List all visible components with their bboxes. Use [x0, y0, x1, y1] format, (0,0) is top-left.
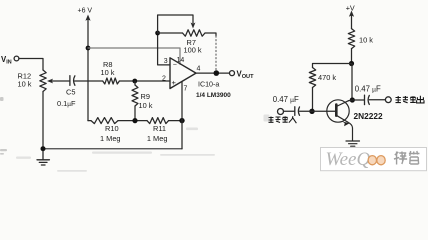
svg-text:IC10-a: IC10-a [198, 80, 219, 88]
wire R12 bottom to ground rail [42, 92, 44, 149]
node R11/pin7 junction [179, 118, 184, 123]
wire bias rail corner [88, 120, 91, 122]
node output terminal [385, 97, 391, 103]
svg-text:R10: R10 [105, 124, 119, 133]
wire R7 right lead [205, 33, 216, 36]
label xinhao-shuru (signal input chinese) [269, 116, 297, 123]
svg-text:R11: R11 [153, 124, 166, 133]
wire feedback dotted drop to output [215, 36, 217, 70]
svg-text:0.1µF: 0.1µF [57, 99, 76, 108]
R12 wiper arrow [47, 79, 70, 84]
node collector junction [350, 97, 355, 102]
capacitor output 0.47uF [365, 95, 370, 104]
wire output cap to terminal [369, 99, 385, 101]
transistor Q1 2N2222 [327, 100, 353, 141]
wire pin7 junction down to ground rail [181, 121, 183, 149]
node R7 left junction [155, 31, 160, 36]
svg-text:+V: +V [346, 3, 355, 12]
svg-text:−: − [173, 61, 177, 68]
svg-text:7: 7 [184, 85, 188, 92]
node VIN terminal [14, 56, 19, 61]
node top rail junction [349, 61, 354, 66]
svg-text:+: + [172, 78, 177, 87]
ground symbol left [37, 151, 49, 165]
wire +6V to pin14 [88, 48, 180, 64]
wire cap to base node [300, 110, 313, 112]
capacitor C5 [70, 76, 75, 86]
node base junction [309, 109, 314, 114]
wire R7 wiper loop [158, 15, 196, 33]
resistor R7 [183, 30, 206, 36]
svg-text:100 k: 100 k [184, 46, 202, 55]
power +V arrow [349, 11, 354, 29]
svg-text:14: 14 [177, 57, 185, 64]
svg-text:R9: R9 [141, 92, 150, 101]
svg-text:0.47 µF: 0.47 µF [355, 85, 381, 94]
svg-text:C5: C5 [66, 88, 75, 97]
svg-text:10 k: 10 k [139, 101, 153, 110]
resistor R8 [103, 78, 120, 84]
svg-text:3: 3 [164, 58, 168, 65]
node VOUT terminal [230, 71, 235, 76]
wire R10 to R11 [118, 120, 147, 122]
svg-text:10 k: 10 k [359, 35, 373, 44]
svg-text:1/4 LM3900: 1/4 LM3900 [196, 92, 231, 99]
resistor 10k (right) [348, 29, 354, 49]
resistor R12 (potentiometer) [40, 70, 46, 92]
node R9/R10/R11 junction [132, 118, 137, 123]
junction +6V branch [86, 46, 91, 51]
node output junction [214, 70, 220, 76]
svg-text:0.47 µF: 0.47 µF [273, 95, 299, 104]
power +6V arrow [85, 15, 90, 49]
wire base node to base [312, 110, 336, 112]
resistor R11 [147, 118, 169, 124]
svg-text:470 k: 470 k [318, 73, 336, 82]
ground symbol right [346, 141, 360, 146]
svg-text:2N2222: 2N2222 [354, 111, 383, 121]
svg-text:10 k: 10 k [18, 80, 32, 89]
junction ground rail / R12 [41, 146, 46, 151]
svg-text:2: 2 [162, 76, 166, 83]
watermark weiku chinese [394, 151, 420, 165]
node R8/R9 junction [132, 79, 137, 84]
watermark box [321, 148, 427, 171]
op-amp U1 IC10-a triangle [170, 58, 196, 89]
capacitor input 0.47uF [295, 107, 300, 116]
svg-text:10 k: 10 k [101, 68, 115, 77]
wire 10k to rail junction [351, 49, 353, 64]
wire collector riser [351, 64, 353, 101]
wire +6V down to bottom rail (crosses C5-R8 wire) [87, 48, 89, 121]
resistor R10 [91, 118, 118, 124]
wire op-amp output [196, 72, 230, 74]
svg-text:WeeQ: WeeQ [326, 149, 371, 170]
resistor R9 [132, 81, 138, 121]
svg-text:+6 V: +6 V [78, 8, 93, 15]
svg-text:4: 4 [197, 66, 201, 73]
wire input to cap [284, 110, 295, 112]
label xinhao-shuchu (signal output chinese) [396, 96, 425, 103]
resistor 470k [309, 68, 315, 88]
wire VIN to R12 top [19, 59, 43, 71]
node input terminal [278, 109, 284, 115]
ground rail [43, 148, 182, 150]
watermark oo dots [368, 156, 385, 165]
wire 470k to base node [312, 88, 314, 112]
wire rail to 470k [313, 64, 352, 68]
wire pin3 stub [158, 33, 170, 65]
wire R11 to pin7 drop [169, 120, 182, 122]
wire pin7 from op-amp bottom [181, 82, 183, 121]
svg-text:1 Meg: 1 Meg [147, 134, 168, 143]
scan noise smudges [0, 97, 7, 155]
wire R8 to pin2 [119, 80, 170, 82]
svg-text:1 Meg: 1 Meg [100, 134, 121, 143]
wire collector to output cap [352, 99, 364, 101]
wire R7 left lead [158, 32, 183, 34]
wire C5 to R8 [75, 80, 103, 82]
wire collector exit to junction [349, 99, 353, 102]
